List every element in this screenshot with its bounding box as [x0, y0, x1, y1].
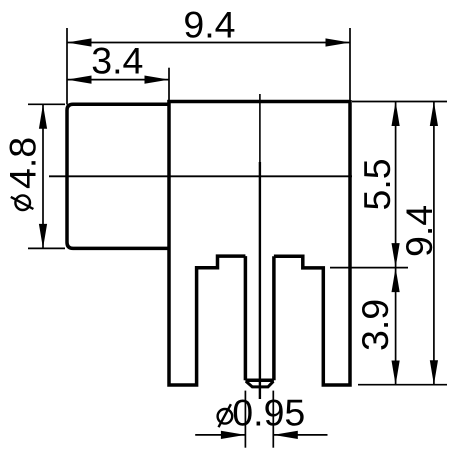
pin tip bullet outline [246, 381, 274, 387]
arrowhead 3.9 up [392, 268, 400, 293]
arrowhead 5.5 up [392, 102, 400, 127]
diameter symbol of 4.8 (rotated) [11, 195, 34, 210]
svg-text:4.8: 4.8 [2, 137, 44, 189]
diameter symbol of 0.95 [218, 404, 233, 427]
dimension line dia4.8 [42, 104, 44, 248]
arrowhead 3.4 left [67, 76, 92, 84]
arrowhead 9.4 right up [430, 102, 438, 127]
arrowhead 9.4 right down [430, 360, 438, 385]
svg-text:3.9: 3.9 [354, 299, 396, 351]
center pin right edge [272, 256, 276, 380]
extension line dia4.8 bottom [28, 247, 65, 249]
body right profile: right edge, right leg, step, shoulder [274, 100, 350, 385]
extension line dia4.8 top [28, 103, 65, 105]
extension line at leg step level (5.5 / 3.9) [330, 267, 408, 269]
extension line left x=67 (9.4 top / 3.4) [66, 28, 68, 105]
dimension line 9.4 right [433, 102, 435, 385]
dimension line dia0.95 left part [195, 434, 245, 436]
arrowhead dia4.8 down [39, 224, 47, 249]
center pin left edge [244, 256, 248, 380]
arrowhead 5.5 down [392, 243, 400, 268]
arrowhead 9.4 top left [67, 38, 92, 46]
dimension line 9.4 top [67, 42, 350, 44]
extension line at leg bottom (3.9 / 9.4 right) [358, 384, 447, 386]
body top edge [167, 100, 350, 104]
svg-text:9.4: 9.4 [183, 4, 235, 46]
arrowhead dia0.95 left (points right) [221, 431, 246, 439]
arrowhead 3.4 right [145, 76, 170, 84]
dimension line dia0.95 right part [273, 434, 327, 436]
extension line right of top edge (5.5 / 9.4 right) [352, 101, 447, 103]
connector barrel outline (left cylindrical body, rounded left corners) [67, 104, 169, 248]
vertical centerline of pin axis [259, 94, 261, 162]
svg-text:3.4: 3.4 [91, 40, 143, 82]
svg-text:9.4: 9.4 [398, 205, 440, 257]
svg-text:5.5: 5.5 [356, 158, 398, 210]
body left profile: division line, left leg, step, shoulder [169, 100, 245, 385]
extension line pin right (dia0.95) [272, 391, 274, 448]
horizontal centerline of barrel axis [49, 175, 352, 177]
extension line pin left (dia0.95) [244, 391, 246, 448]
extension line x=169 (3.4) [168, 68, 170, 102]
arrowhead dia4.8 up [39, 104, 47, 129]
dimension line 3.4 [67, 79, 169, 81]
dimension line 3.9 [395, 268, 397, 385]
dimension line 5.5 [395, 102, 397, 268]
arrowhead dia0.95 right (points left) [273, 431, 298, 439]
arrowhead 9.4 top right [326, 38, 351, 46]
pin tip chamfer cross line [245, 378, 274, 382]
arrowhead 3.9 down [392, 361, 400, 386]
extension line x=350 (9.4 top) [349, 28, 351, 102]
svg-text:0.95: 0.95 [232, 392, 305, 434]
